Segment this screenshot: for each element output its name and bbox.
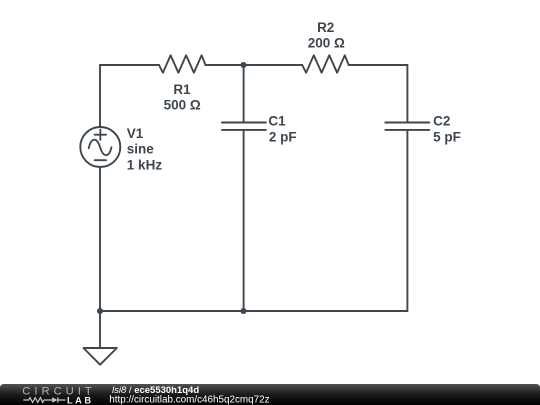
wire bottom horizontal <box>100 310 407 312</box>
svg-text:C2: C2 <box>433 114 450 129</box>
svg-text:V1: V1 <box>127 126 144 141</box>
svg-text:LAB: LAB <box>67 396 94 405</box>
svg-text:R2: R2 <box>317 20 334 35</box>
V1 plus sign <box>95 130 107 141</box>
node junction V1/ground/bottom wire <box>97 308 103 314</box>
logo wire and diode glyph <box>23 397 65 403</box>
node junction R1/C1/R2 <box>240 62 246 68</box>
svg-text:sine: sine <box>127 141 155 156</box>
V1 minus sign <box>95 159 107 161</box>
wire right vertical lower <box>406 130 408 311</box>
wire left vertical upper <box>99 65 101 127</box>
wire left vertical lower <box>99 167 101 311</box>
resistor R2 <box>302 55 349 72</box>
capacitor C1 <box>222 123 266 130</box>
capacitor C2 <box>385 123 429 130</box>
svg-text:2 pF: 2 pF <box>269 129 297 144</box>
wire middle vertical upper <box>243 65 245 123</box>
svg-text:500 Ω: 500 Ω <box>164 98 201 113</box>
resistor R1 <box>159 55 206 72</box>
wire R1 to R2 through node <box>206 64 303 66</box>
svg-text:http://circuitlab.com/c46h5q2c: http://circuitlab.com/c46h5q2cmq72z <box>109 395 269 405</box>
footer bar <box>0 384 540 405</box>
svg-text:200 Ω: 200 Ω <box>308 36 345 51</box>
svg-text:C1: C1 <box>268 114 286 129</box>
ground symbol <box>84 348 117 365</box>
wire ground stub <box>99 311 101 348</box>
wire R2 to right corner <box>349 64 408 66</box>
node junction C1/bottom wire <box>240 308 246 314</box>
wire middle vertical lower <box>243 130 245 311</box>
voltage source V1 <box>80 127 120 167</box>
wire right vertical upper <box>406 65 408 123</box>
svg-text:1 kHz: 1 kHz <box>127 158 163 173</box>
wire top-left horizontal <box>100 64 159 66</box>
svg-text:R1: R1 <box>173 82 191 97</box>
V1 sine symbol <box>89 140 112 155</box>
svg-text:5 pF: 5 pF <box>433 129 461 144</box>
